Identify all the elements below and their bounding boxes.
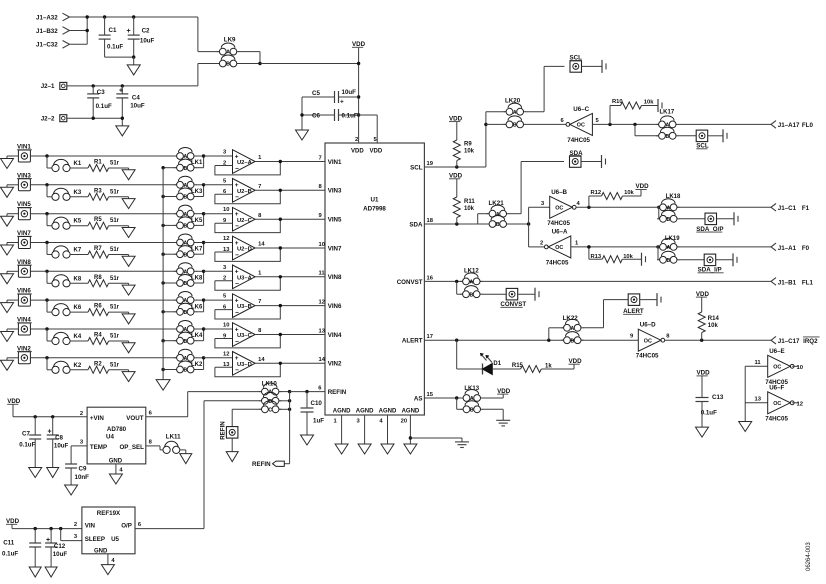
svg-text:R11: R11 (464, 199, 475, 205)
svg-text:10uF: 10uF (53, 551, 68, 558)
svg-text:10k: 10k (464, 206, 475, 212)
svg-text:A: A (666, 245, 670, 251)
svg-text:10: 10 (797, 365, 803, 371)
svg-text:12: 12 (223, 236, 229, 242)
svg-text:B: B (226, 62, 230, 68)
svg-text:−: − (235, 194, 239, 201)
svg-text:O/P: O/P (121, 523, 132, 530)
svg-text:R7: R7 (94, 246, 102, 252)
svg-text:SCL: SCL (410, 164, 423, 171)
svg-text:F1: F1 (802, 205, 810, 212)
svg-text:SDA: SDA (409, 221, 423, 228)
svg-text:10k: 10k (708, 323, 719, 329)
svg-text:B: B (183, 252, 187, 258)
svg-text:R9: R9 (464, 142, 472, 148)
svg-text:2: 2 (540, 240, 543, 246)
svg-text:OC: OC (644, 338, 652, 344)
svg-text:J1–A1: J1–A1 (778, 245, 797, 252)
svg-text:C2: C2 (142, 28, 150, 35)
svg-text:0.1uF: 0.1uF (96, 103, 112, 110)
svg-text:K2: K2 (74, 363, 82, 369)
svg-text:IRQ2: IRQ2 (803, 338, 818, 345)
svg-text:U3–C: U3–C (237, 333, 253, 339)
svg-text:B: B (183, 224, 187, 230)
svg-text:0.1uF: 0.1uF (107, 43, 123, 50)
svg-text:7: 7 (319, 155, 322, 161)
svg-text:16: 16 (427, 275, 434, 281)
svg-text:J1–C17: J1–C17 (778, 338, 800, 345)
svg-text:U6–C: U6–C (573, 106, 589, 113)
svg-text:10nF: 10nF (75, 474, 90, 481)
svg-text:R1: R1 (94, 160, 102, 166)
svg-text:51r: 51r (110, 362, 120, 368)
svg-text:51r: 51r (110, 247, 120, 253)
svg-text:B: B (183, 368, 187, 374)
svg-text:B: B (183, 195, 187, 201)
svg-text:10uF: 10uF (130, 103, 145, 110)
svg-text:J1–B1: J1–B1 (778, 279, 797, 286)
svg-text:R3: R3 (94, 188, 102, 194)
svg-text:+: + (46, 537, 50, 544)
svg-text:J2–1: J2–1 (41, 83, 55, 90)
svg-text:OC: OC (555, 245, 563, 251)
svg-text:R5: R5 (94, 217, 102, 223)
svg-text:A: A (183, 241, 187, 247)
svg-text:GND: GND (109, 458, 123, 464)
svg-text:12: 12 (797, 401, 803, 407)
svg-text:VIN7: VIN7 (328, 245, 342, 252)
svg-text:A: A (570, 326, 574, 332)
svg-text:LK12: LK12 (464, 268, 479, 274)
svg-text:K5: K5 (74, 219, 82, 225)
svg-text:U6–F: U6–F (769, 384, 784, 391)
svg-text:GND: GND (94, 549, 108, 555)
svg-text:B: B (268, 399, 272, 405)
svg-text:51r: 51r (110, 161, 120, 167)
svg-text:AGND: AGND (379, 409, 397, 415)
svg-text:0.1uF: 0.1uF (2, 551, 18, 558)
svg-text:A: A (183, 269, 187, 275)
svg-text:+VIN: +VIN (90, 415, 104, 422)
svg-text:TEMP: TEMP (90, 444, 107, 451)
svg-text:A: A (665, 123, 669, 129)
svg-text:K8: K8 (74, 276, 82, 282)
svg-text:A: A (183, 327, 187, 333)
svg-text:U5: U5 (111, 536, 119, 543)
svg-text:−: − (235, 223, 239, 230)
svg-text:A: A (496, 212, 500, 218)
svg-text:C12: C12 (54, 543, 66, 550)
svg-text:B: B (183, 339, 187, 345)
svg-text:R4: R4 (94, 333, 102, 339)
svg-text:K6: K6 (74, 305, 82, 311)
svg-text:B: B (496, 222, 500, 228)
svg-text:VIN1: VIN1 (328, 159, 342, 166)
svg-text:B: B (183, 310, 187, 316)
svg-text:R8: R8 (94, 275, 102, 281)
svg-text:LK17: LK17 (660, 110, 675, 116)
svg-text:U3–B: U3–B (237, 304, 252, 310)
svg-text:F0: F0 (802, 245, 810, 252)
svg-text:+: + (340, 99, 344, 106)
svg-text:10k: 10k (624, 190, 634, 196)
svg-text:A: A (183, 298, 187, 304)
svg-text:C6: C6 (312, 113, 320, 120)
svg-text:1uF: 1uF (313, 417, 324, 424)
svg-text:10uF: 10uF (140, 37, 155, 44)
svg-text:U2–D: U2–D (237, 247, 252, 253)
svg-text:AD7998: AD7998 (363, 206, 386, 213)
svg-text:R6: R6 (94, 304, 102, 310)
svg-text:20: 20 (401, 419, 407, 425)
svg-text:U4: U4 (106, 433, 114, 440)
svg-text:+: + (127, 28, 131, 35)
svg-text:U2–C: U2–C (237, 218, 253, 224)
svg-text:VOUT: VOUT (126, 415, 143, 422)
svg-text:OC: OC (773, 401, 781, 407)
svg-text:A: A (470, 396, 474, 402)
svg-text:17: 17 (427, 334, 433, 340)
svg-text:C9: C9 (79, 466, 87, 473)
svg-text:A: A (666, 205, 670, 211)
svg-text:C3: C3 (97, 89, 105, 96)
svg-text:VIN5: VIN5 (328, 217, 342, 224)
svg-text:U2–B: U2–B (237, 189, 252, 195)
svg-text:15: 15 (427, 392, 434, 398)
svg-text:REFIN: REFIN (252, 461, 271, 468)
svg-text:−: − (235, 309, 239, 316)
svg-text:A: A (469, 280, 473, 286)
svg-text:VDD: VDD (370, 149, 383, 155)
svg-text:06264-003: 06264-003 (806, 542, 812, 571)
svg-text:A: A (268, 390, 272, 396)
svg-text:51r: 51r (110, 218, 120, 224)
svg-text:B: B (513, 123, 517, 129)
svg-text:K4: K4 (74, 334, 82, 340)
svg-text:J1–C1: J1–C1 (778, 205, 797, 212)
svg-text:A: A (183, 356, 187, 362)
svg-text:OC: OC (577, 123, 585, 129)
svg-text:REFIN: REFIN (220, 421, 227, 440)
svg-text:B: B (570, 338, 574, 344)
svg-text:R10: R10 (612, 99, 623, 105)
svg-text:U2–A: U2–A (237, 160, 253, 166)
svg-text:10: 10 (223, 207, 229, 213)
svg-text:0.1uF: 0.1uF (342, 113, 358, 120)
svg-text:−: − (235, 367, 239, 374)
svg-text:C11: C11 (3, 540, 15, 547)
svg-text:10: 10 (223, 323, 229, 329)
svg-text:−: − (235, 338, 239, 345)
svg-text:51r: 51r (110, 189, 120, 195)
svg-text:C13: C13 (712, 394, 724, 401)
svg-text:74HC05: 74HC05 (765, 415, 788, 422)
svg-text:2: 2 (74, 522, 77, 528)
svg-text:OC: OC (773, 365, 781, 371)
svg-text:FL0: FL0 (802, 122, 814, 129)
svg-text:B: B (183, 281, 187, 287)
svg-text:A: A (513, 110, 517, 116)
svg-text:AGND: AGND (402, 409, 420, 415)
svg-text:19: 19 (427, 161, 434, 167)
svg-text:C1: C1 (109, 27, 117, 34)
svg-text:VIN6: VIN6 (328, 303, 342, 310)
svg-text:ALERT: ALERT (402, 338, 423, 345)
svg-text:74HC05: 74HC05 (547, 220, 570, 227)
svg-text:14: 14 (319, 357, 326, 363)
svg-text:CONVST: CONVST (397, 279, 423, 286)
svg-text:0.1uF: 0.1uF (19, 442, 35, 449)
svg-text:10k: 10k (644, 100, 654, 106)
svg-text:AS: AS (414, 395, 423, 402)
svg-text:FL1: FL1 (802, 279, 814, 286)
svg-text:R12: R12 (591, 190, 602, 196)
svg-text:10uF: 10uF (342, 89, 357, 96)
svg-text:2: 2 (80, 411, 83, 417)
svg-text:13: 13 (755, 397, 762, 403)
svg-text:A: A (183, 154, 187, 160)
svg-text:10uF: 10uF (54, 443, 69, 450)
svg-text:A: A (183, 183, 187, 189)
svg-text:J1–A17: J1–A17 (778, 122, 800, 129)
svg-text:AGND: AGND (356, 409, 374, 415)
svg-text:12: 12 (319, 299, 325, 305)
svg-text:VIN: VIN (85, 523, 96, 530)
svg-text:11: 11 (755, 360, 762, 366)
svg-text:J2–2: J2–2 (41, 116, 55, 123)
svg-text:LK9: LK9 (224, 37, 236, 44)
svg-text:VIN4: VIN4 (328, 332, 342, 339)
svg-text:REFIN: REFIN (328, 389, 347, 396)
svg-text:U6–E: U6–E (769, 348, 784, 355)
svg-text:U3–A: U3–A (237, 275, 253, 281)
svg-text:K1: K1 (74, 161, 82, 167)
svg-text:B: B (666, 258, 670, 264)
svg-text:J1–B32: J1–B32 (36, 28, 58, 35)
svg-text:A: A (183, 212, 187, 218)
svg-text:18: 18 (427, 218, 434, 224)
svg-text:74HC05: 74HC05 (546, 259, 569, 266)
svg-text:B: B (666, 217, 670, 223)
svg-text:C: C (268, 407, 272, 413)
svg-text:74HC05: 74HC05 (636, 353, 659, 360)
svg-text:10k: 10k (464, 149, 475, 155)
svg-text:VIN3: VIN3 (328, 188, 342, 195)
svg-text:U6–D: U6–D (640, 322, 656, 329)
svg-text:R2: R2 (94, 361, 102, 367)
svg-text:−: − (235, 252, 239, 259)
svg-text:B: B (665, 134, 669, 140)
svg-text:OP_SEL: OP_SEL (119, 444, 144, 451)
svg-text:C4: C4 (132, 94, 140, 101)
svg-text:51r: 51r (110, 334, 120, 340)
svg-text:14: 14 (258, 357, 265, 363)
svg-text:13: 13 (319, 328, 326, 334)
svg-text:A: A (226, 50, 230, 56)
svg-text:VIN8: VIN8 (328, 274, 342, 281)
svg-text:LK22: LK22 (563, 315, 579, 322)
svg-text:14: 14 (258, 242, 265, 248)
svg-text:AD780: AD780 (107, 426, 127, 433)
svg-text:74HC05: 74HC05 (567, 137, 590, 144)
svg-text:J1–C32: J1–C32 (36, 42, 58, 49)
svg-text:U1: U1 (371, 197, 379, 204)
svg-text:−: − (235, 165, 239, 172)
svg-text:C10: C10 (311, 400, 323, 407)
svg-text:LK11: LK11 (166, 434, 181, 441)
svg-text:B: B (469, 292, 473, 298)
svg-text:51r: 51r (110, 276, 120, 282)
svg-text:SLEEP: SLEEP (85, 536, 105, 543)
svg-text:10: 10 (319, 242, 325, 248)
svg-text:+: + (48, 429, 52, 436)
svg-text:U3–D: U3–D (237, 362, 252, 368)
svg-text:VIN2: VIN2 (328, 361, 342, 368)
svg-text:J1–A32: J1–A32 (36, 14, 58, 21)
svg-text:12: 12 (223, 351, 229, 357)
svg-text:VDD: VDD (351, 149, 364, 155)
svg-text:U6–A: U6–A (552, 228, 568, 235)
svg-text:OC: OC (555, 206, 563, 212)
svg-text:11: 11 (319, 271, 326, 277)
svg-text:+: + (119, 87, 123, 94)
svg-text:0.1uF: 0.1uF (701, 410, 717, 417)
svg-text:7: 7 (258, 184, 261, 190)
svg-text:2: 2 (355, 137, 358, 143)
svg-text:K3: K3 (74, 190, 82, 196)
svg-text:−: − (235, 281, 239, 288)
svg-text:C8: C8 (55, 435, 63, 442)
svg-text:51r: 51r (110, 305, 120, 311)
svg-text:K7: K7 (74, 248, 82, 254)
svg-text:R14: R14 (708, 316, 720, 322)
svg-text:D1: D1 (493, 361, 501, 367)
svg-text:U6–B: U6–B (551, 189, 567, 196)
svg-text:C5: C5 (312, 90, 320, 97)
svg-text:7: 7 (258, 299, 261, 305)
svg-text:REF19X: REF19X (97, 510, 121, 517)
svg-text:B: B (470, 407, 474, 413)
svg-text:AGND: AGND (333, 409, 351, 415)
svg-text:C7: C7 (22, 431, 30, 438)
svg-text:B: B (183, 166, 187, 172)
